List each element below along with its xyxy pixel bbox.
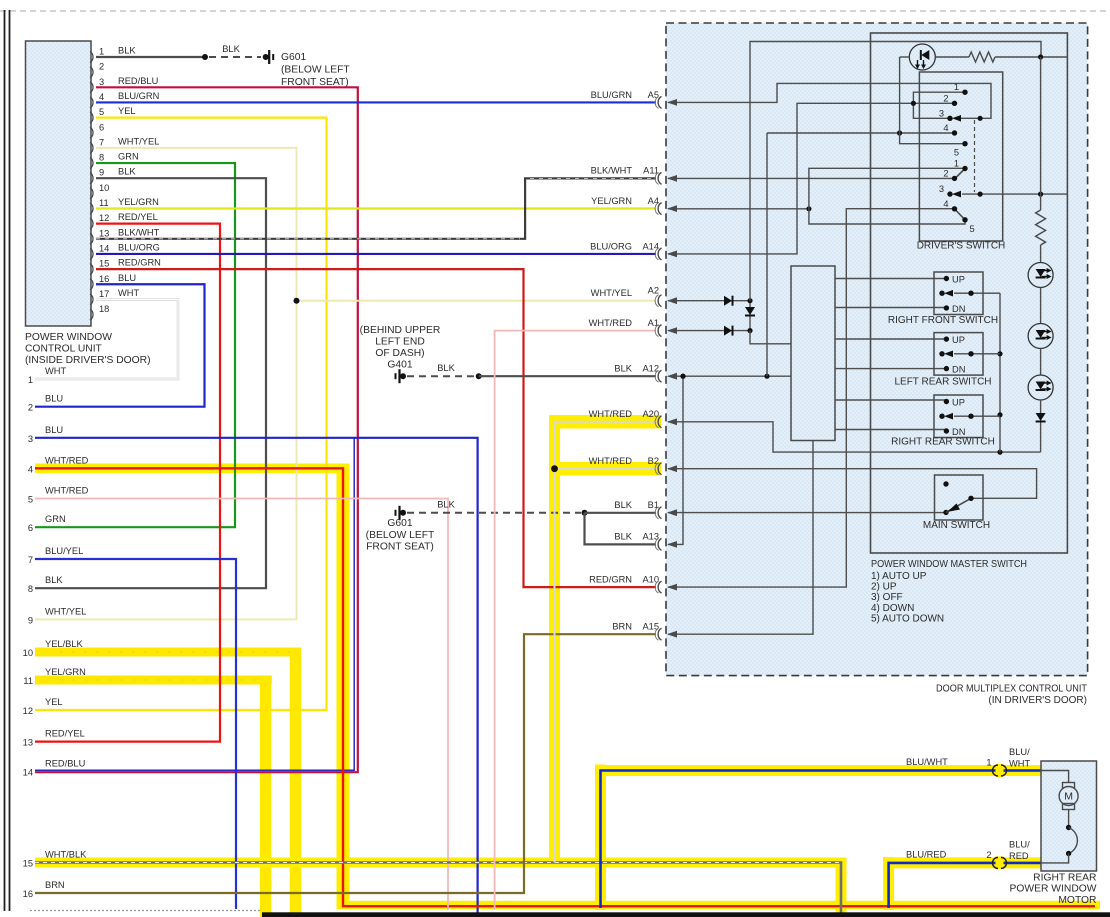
wire BLK to A12 solid xyxy=(479,375,656,377)
main switch blade top contact xyxy=(968,496,973,501)
svg-text:UP: UP xyxy=(952,335,965,345)
svg-text:WHT/YEL: WHT/YEL xyxy=(45,606,86,616)
motor lead to breaker xyxy=(1068,810,1070,828)
svg-text:BLK: BLK xyxy=(614,500,632,510)
svg-text:2: 2 xyxy=(943,93,948,103)
ground G601 middle xyxy=(395,510,397,516)
svg-text:2: 2 xyxy=(943,168,948,178)
svg-text:9: 9 xyxy=(99,168,104,178)
left rear switch wiper xyxy=(939,351,944,356)
svg-text:G601: G601 xyxy=(387,518,412,529)
svg-text:WHT/YEL: WHT/YEL xyxy=(118,136,159,146)
wire right rear DN lead xyxy=(835,429,946,431)
wire row3 BLU to bottom xyxy=(35,438,478,914)
svg-text:(IN DRIVER'S DOOR): (IN DRIVER'S DOOR) xyxy=(988,695,1087,706)
wire BLK branch to A13 xyxy=(585,513,657,545)
motor brush bottom xyxy=(1063,804,1075,810)
svg-text:POWER WINDOW MASTER SWITCH: POWER WINDOW MASTER SWITCH xyxy=(871,559,1027,570)
svg-text:CONTROL UNIT: CONTROL UNIT xyxy=(25,344,103,355)
junction A1 diode xyxy=(747,328,752,333)
svg-text:5) AUTO DOWN: 5) AUTO DOWN xyxy=(871,614,944,625)
wire B1 internal to main switch xyxy=(668,512,946,514)
page bottom dotted left xyxy=(30,910,262,912)
svg-text:YEL/GRN: YEL/GRN xyxy=(45,667,86,677)
main switch blade xyxy=(946,498,971,512)
wire right front DN lead xyxy=(835,307,946,309)
pin 11 half-circle xyxy=(90,203,93,214)
svg-text:BLU/ORG: BLU/ORG xyxy=(118,242,160,252)
right rear switch box xyxy=(934,395,983,438)
wire LED column vertical xyxy=(1040,57,1042,210)
resistor LED column xyxy=(1036,210,1046,245)
motor lead out xyxy=(1041,854,1069,863)
svg-text:RED/BLU: RED/BLU xyxy=(118,76,158,86)
wire LED1 leads xyxy=(900,56,910,58)
contact 4 lower pole xyxy=(952,206,957,211)
highlight band row10 YEL/BLK wire xyxy=(35,648,301,657)
wire row14 blue companion xyxy=(35,438,354,770)
entry A13 xyxy=(658,538,661,550)
highlight band bottom run xyxy=(337,901,1101,910)
wire pin13 BLK/WHT to A11 xyxy=(96,178,656,238)
pin 16 half-circle xyxy=(90,279,93,290)
highlight band BLU/WHT motor wire xyxy=(595,765,606,911)
svg-text:3: 3 xyxy=(99,77,104,87)
wire A1 WHT/RED pale xyxy=(495,331,656,910)
page left double border xyxy=(4,10,6,911)
wire contact4a lead xyxy=(767,132,955,134)
svg-text:DRIVER'S SWITCH: DRIVER'S SWITCH xyxy=(917,241,1006,252)
svg-text:7: 7 xyxy=(99,137,104,147)
svg-text:G601: G601 xyxy=(281,52,306,63)
svg-text:7: 7 xyxy=(28,555,33,565)
svg-text:BLU/RED: BLU/RED xyxy=(906,850,947,860)
wire A5 internal to driver's switch xyxy=(668,83,991,118)
wire pin8 GRN to row6 xyxy=(35,163,235,527)
svg-text:3: 3 xyxy=(28,434,33,444)
pin 10 half-circle xyxy=(90,188,93,199)
highlight band row15 WHT/BLK xyxy=(35,858,847,868)
blade contact4b to 5b xyxy=(955,209,966,220)
wire pin17 WHT to row1 xyxy=(35,299,178,379)
contact 2 lower pole xyxy=(952,176,957,181)
right rear switch UP contact xyxy=(944,399,949,404)
breaker contact bottom xyxy=(1066,851,1071,856)
motor internal wiring xyxy=(1041,771,1069,784)
junction left rear wiper xyxy=(997,351,1002,356)
svg-text:1) AUTO UP: 1) AUTO UP xyxy=(871,571,927,582)
wire A14 internal to contact 2 xyxy=(668,103,955,254)
svg-text:MAIN SWITCH: MAIN SWITCH xyxy=(923,520,990,531)
wire left rear DN lead xyxy=(835,368,946,370)
wire B2 WHT/RED core xyxy=(555,468,659,470)
svg-text:A2: A2 xyxy=(648,286,659,296)
left rear switch DN contact xyxy=(944,366,949,371)
svg-text:YEL/GRN: YEL/GRN xyxy=(591,196,632,206)
svg-text:WHT: WHT xyxy=(1009,759,1030,769)
svg-text:MOTOR: MOTOR xyxy=(1058,895,1096,906)
svg-text:LEFT REAR SWITCH: LEFT REAR SWITCH xyxy=(894,377,991,388)
svg-text:A5: A5 xyxy=(648,90,659,100)
svg-text:13: 13 xyxy=(23,738,33,748)
svg-text:17: 17 xyxy=(99,289,109,299)
svg-text:LEFT END: LEFT END xyxy=(375,337,425,348)
wire pin11 YEL/GRN to A4 xyxy=(96,207,656,209)
svg-text:BLU/WHT: BLU/WHT xyxy=(906,757,948,767)
svg-text:WHT/YEL: WHT/YEL xyxy=(591,288,632,298)
junction WHT/YEL xyxy=(294,298,300,304)
right front switch UP contact xyxy=(944,276,949,281)
svg-text:10: 10 xyxy=(99,183,109,193)
power window master switch box xyxy=(871,33,1068,553)
pin 6 half-circle xyxy=(90,127,93,138)
page bottom black bar xyxy=(262,912,1110,917)
highlight band A20/B2 vertical x554.5 xyxy=(549,415,560,866)
blade contact2b to 1b xyxy=(955,169,966,180)
svg-text:8: 8 xyxy=(28,584,33,594)
svg-text:13: 13 xyxy=(99,228,109,238)
wire contacts4/5 ground vertical x767 xyxy=(766,133,768,376)
svg-text:1: 1 xyxy=(28,375,33,385)
wire pin14 BLU/ORG to A14 xyxy=(96,253,656,255)
entry A10 xyxy=(658,581,661,593)
wire A4 internal xyxy=(668,208,809,210)
entry B2 xyxy=(658,463,661,475)
pin 5 half-circle xyxy=(90,112,93,123)
junction A12 to contacts 4/5 xyxy=(764,374,769,379)
pin 2 half-circle xyxy=(90,67,93,78)
contact 5 lower pole xyxy=(962,217,967,222)
wire A11 internal to contact 2 lower xyxy=(668,177,955,179)
left rear switch box xyxy=(934,333,983,376)
wire pin4 BLU/GRN to A5 xyxy=(96,101,656,103)
svg-text:BLU/GRN: BLU/GRN xyxy=(118,91,159,101)
svg-text:RIGHT FRONT SWITCH: RIGHT FRONT SWITCH xyxy=(888,315,998,326)
svg-text:9: 9 xyxy=(28,615,33,625)
svg-text:WHT/RED: WHT/RED xyxy=(45,455,89,465)
wire row11 YEL/GRN stripe xyxy=(60,679,260,681)
svg-text:6: 6 xyxy=(99,122,104,132)
svg-text:5: 5 xyxy=(954,148,959,158)
main switch moving contact xyxy=(943,510,948,515)
wire row5 WHT/RED pale xyxy=(35,499,448,911)
entry A1 xyxy=(658,325,661,337)
wire row15 WHT/BLK core xyxy=(35,863,841,914)
breaker arc xyxy=(1069,828,1078,854)
wire pin15 RED/GRN to A10 xyxy=(96,269,656,587)
junction A12 inside xyxy=(680,374,685,379)
motor M circle xyxy=(1059,787,1078,806)
contact 1 lower pole xyxy=(962,166,967,171)
svg-text:16: 16 xyxy=(23,889,33,899)
breaker contact top xyxy=(1066,825,1071,830)
svg-text:A1: A1 xyxy=(648,318,659,328)
wire WHT/YEL branch to A2 xyxy=(297,300,657,302)
wire pin1 BLK to G601 xyxy=(96,56,205,58)
svg-text:YEL: YEL xyxy=(45,697,63,707)
svg-text:11: 11 xyxy=(99,198,109,208)
highlight band row11 YEL/GRN wire xyxy=(35,676,272,685)
wire A20 internal xyxy=(668,422,1041,452)
highlight band row4 WHT/RED xyxy=(35,464,349,474)
junction BLK A12 xyxy=(476,373,482,379)
svg-text:G401: G401 xyxy=(387,360,412,371)
svg-text:BLK: BLK xyxy=(118,167,136,177)
entry A14 xyxy=(658,248,661,260)
wire BLK to B1 solid xyxy=(585,512,657,514)
diode LED column xyxy=(1036,413,1046,421)
wire A12 internal xyxy=(668,375,791,377)
wire BLK G601 to B1 dashed xyxy=(407,512,581,514)
right front switch DN contact xyxy=(944,305,949,310)
wire contact1 lower chain xyxy=(809,168,965,224)
wire A2 internal with diode xyxy=(668,300,726,302)
contact 1 upper pole xyxy=(962,90,967,95)
wire A1/A2 net to connector block xyxy=(750,331,791,344)
ground G401 xyxy=(395,373,397,379)
svg-text:DOOR MULTIPLEX CONTROL UNIT: DOOR MULTIPLEX CONTROL UNIT xyxy=(936,684,1087,695)
wire row16 BRN to A15 xyxy=(35,634,656,893)
entry A20 xyxy=(658,416,661,428)
svg-text:(BELOW LEFT: (BELOW LEFT xyxy=(366,530,435,541)
svg-text:GRN: GRN xyxy=(118,152,139,162)
svg-text:DN: DN xyxy=(952,427,965,437)
svg-text:DN: DN xyxy=(952,365,965,375)
svg-text:(BELOW LEFT: (BELOW LEFT xyxy=(281,65,350,76)
power window control unit connector box xyxy=(26,41,92,326)
highlight band BLU/RED motor wire xyxy=(883,857,894,910)
junction right rear wiper xyxy=(997,412,1002,417)
contact 5 upper pole xyxy=(962,141,967,146)
wire pin12 RED/YEL to row13 xyxy=(35,224,220,742)
svg-text:12: 12 xyxy=(99,213,109,223)
junction contact3a link xyxy=(978,116,983,121)
svg-text:4) DOWN: 4) DOWN xyxy=(871,603,914,614)
diode A1 xyxy=(724,326,732,336)
svg-text:1: 1 xyxy=(986,758,991,768)
svg-text:15: 15 xyxy=(99,259,109,269)
svg-text:3: 3 xyxy=(939,184,944,194)
pin 15 half-circle xyxy=(90,264,93,275)
diode between A2 and A1 xyxy=(749,301,751,307)
junction A4 on contact1-5 chain xyxy=(806,206,811,211)
svg-text:5: 5 xyxy=(28,495,33,505)
contact 4 upper pole xyxy=(952,130,957,135)
svg-text:1: 1 xyxy=(954,82,959,92)
svg-text:3: 3 xyxy=(939,108,944,118)
svg-text:M: M xyxy=(1064,791,1073,803)
pin 7 half-circle xyxy=(90,142,93,153)
door multiplex control unit box xyxy=(666,23,1088,676)
wire A15 internal to connector block xyxy=(668,441,813,635)
highlight band A20 horizontal xyxy=(549,415,661,429)
LED left rear xyxy=(1028,324,1053,349)
wire row7 BLU/YEL xyxy=(35,559,236,909)
main switch fixed contact xyxy=(943,481,948,486)
svg-text:RIGHT REAR SWITCH: RIGHT REAR SWITCH xyxy=(891,437,995,448)
svg-text:RED/BLU: RED/BLU xyxy=(45,759,85,769)
right front switch wiper xyxy=(939,291,944,296)
pin 1 half-circle xyxy=(90,52,93,63)
svg-text:2) UP: 2) UP xyxy=(871,582,897,593)
svg-text:BLU/: BLU/ xyxy=(1009,747,1030,757)
svg-text:RED/YEL: RED/YEL xyxy=(118,212,158,222)
right rear switch wiper xyxy=(939,414,944,419)
contact 3 upper pole xyxy=(947,116,952,121)
svg-text:B1: B1 xyxy=(648,500,659,510)
wire pin5 YEL to row12 xyxy=(35,118,327,710)
svg-text:POWER WINDOW: POWER WINDOW xyxy=(25,332,112,343)
wire BLK G401 to A12 dashed xyxy=(407,375,475,377)
junction contact2a lead xyxy=(911,101,916,106)
svg-text:WHT: WHT xyxy=(45,366,66,376)
svg-text:14: 14 xyxy=(23,768,33,778)
entry A5 xyxy=(658,96,661,108)
svg-text:RIGHT REAR: RIGHT REAR xyxy=(1033,873,1096,884)
contact 3 lower pole xyxy=(947,191,952,196)
svg-text:BLU: BLU xyxy=(45,394,63,404)
svg-text:BLK: BLK xyxy=(222,44,240,54)
svg-text:5: 5 xyxy=(970,224,975,234)
wire A10 internal to contact 4 lower xyxy=(668,209,955,587)
right rear power window motor box xyxy=(1041,761,1097,871)
svg-text:WHT: WHT xyxy=(118,288,139,298)
driver's switch box xyxy=(919,72,1002,241)
svg-text:WHT/RED: WHT/RED xyxy=(589,456,633,466)
wire BLU/RED core xyxy=(889,863,1041,908)
entry A12 xyxy=(658,370,661,382)
pin 18 half-circle xyxy=(90,309,93,320)
svg-text:BLU: BLU xyxy=(45,425,63,435)
svg-text:FRONT SEAT): FRONT SEAT) xyxy=(366,542,434,553)
junction resistor to LED column xyxy=(1038,54,1043,59)
svg-text:BLK/WHT: BLK/WHT xyxy=(118,227,160,237)
svg-text:RED/GRN: RED/GRN xyxy=(589,575,632,585)
svg-text:POWER WINDOW: POWER WINDOW xyxy=(1010,884,1097,895)
svg-text:2: 2 xyxy=(986,850,991,860)
right front switch box xyxy=(934,272,983,315)
diode A2 xyxy=(724,296,732,306)
svg-text:1: 1 xyxy=(99,47,104,57)
svg-text:BLK/WHT: BLK/WHT xyxy=(591,166,633,176)
ground G601 top xyxy=(263,54,269,60)
wire right rear UP lead xyxy=(835,399,946,401)
svg-text:4: 4 xyxy=(943,123,948,133)
pin 17 half-circle xyxy=(90,294,93,305)
wire contact1a lead xyxy=(913,92,965,118)
svg-text:YEL/BLK: YEL/BLK xyxy=(45,639,84,649)
junction A12 to A13 xyxy=(680,374,685,379)
svg-text:RED/YEL: RED/YEL xyxy=(45,729,85,739)
highlight band B2 horizontal xyxy=(549,462,661,476)
wire pin16 BLU to row2 xyxy=(35,284,205,406)
svg-text:RED/GRN: RED/GRN xyxy=(118,258,161,268)
svg-text:1: 1 xyxy=(954,159,959,169)
wire left rear UP lead xyxy=(835,338,946,340)
pin 12 half-circle xyxy=(90,218,93,229)
svg-text:BLK: BLK xyxy=(118,46,136,56)
svg-text:B2: B2 xyxy=(648,456,659,466)
pin 13 half-circle xyxy=(90,233,93,244)
svg-text:BRN: BRN xyxy=(612,622,632,632)
junction A2 diode xyxy=(747,298,752,303)
wire pin3 RED/BLU xyxy=(35,87,358,772)
svg-text:2: 2 xyxy=(28,403,33,413)
entry A15 xyxy=(658,628,661,640)
junction contact4a/5a xyxy=(897,130,902,135)
junction A20 wiper bus xyxy=(997,450,1002,455)
LED right rear xyxy=(1028,375,1053,400)
pin 3 half-circle xyxy=(90,82,93,93)
pin 4 half-circle xyxy=(90,97,93,108)
wiper arrow contact 3b xyxy=(952,191,961,198)
highlight band row10 vertical xyxy=(290,648,302,917)
svg-text:WHT/RED: WHT/RED xyxy=(589,409,633,419)
entry A2 xyxy=(658,295,661,307)
wire right front UP lead xyxy=(835,278,946,280)
pin 8 half-circle xyxy=(90,158,93,169)
svg-text:4: 4 xyxy=(99,92,104,102)
svg-text:BLU: BLU xyxy=(118,273,136,283)
wire A13 internal up to A12 xyxy=(668,376,683,544)
wire B2 internal to main switch xyxy=(668,469,1037,499)
svg-text:WHT/RED: WHT/RED xyxy=(45,486,89,496)
svg-text:5: 5 xyxy=(99,107,104,117)
LED right front xyxy=(1028,263,1053,288)
pin 9 half-circle xyxy=(90,173,93,184)
page top dashed border xyxy=(0,10,1110,12)
svg-text:BLU/: BLU/ xyxy=(1009,840,1030,850)
svg-text:11: 11 xyxy=(23,676,33,686)
svg-text:BRN: BRN xyxy=(45,880,65,890)
svg-text:YEL: YEL xyxy=(118,106,136,116)
wiper arrow contact 3a xyxy=(952,115,961,122)
contact 2 upper pole xyxy=(952,101,957,106)
svg-text:8: 8 xyxy=(99,153,104,163)
LED driver's switch illumination xyxy=(909,44,935,70)
svg-text:12: 12 xyxy=(23,706,33,716)
motor brush top xyxy=(1063,783,1075,789)
svg-text:(BEHIND UPPER: (BEHIND UPPER xyxy=(360,325,441,336)
svg-text:YEL/GRN: YEL/GRN xyxy=(118,197,159,207)
svg-text:OF DASH): OF DASH) xyxy=(375,348,424,359)
svg-text:WHT/RED: WHT/RED xyxy=(589,318,633,328)
highlight band row15 vertical x841 xyxy=(836,858,847,915)
svg-text:6: 6 xyxy=(28,523,33,533)
wire row4 WHT/RED red core xyxy=(35,468,1095,906)
wire A20 WHT/RED core xyxy=(555,422,659,863)
entry B1 xyxy=(658,507,661,519)
svg-text:WHT/BLK: WHT/BLK xyxy=(45,850,87,860)
right rear switch DN contact xyxy=(944,428,949,433)
junction BLK B1 xyxy=(582,510,588,516)
svg-text:4: 4 xyxy=(943,199,948,209)
mechanical link dashed xyxy=(974,120,976,192)
wire row10 YEL/BLK stripe xyxy=(60,651,290,653)
svg-text:BLK: BLK xyxy=(614,532,632,542)
highlight band vertical x343 xyxy=(337,464,350,909)
svg-text:DN: DN xyxy=(952,304,965,314)
junction contact3b link xyxy=(978,192,983,197)
junction B2 highlighted xyxy=(551,465,558,472)
multiplex internal connector block xyxy=(791,266,835,441)
svg-text:10: 10 xyxy=(23,648,33,658)
entry A11 xyxy=(658,172,661,184)
svg-text:18: 18 xyxy=(99,304,109,314)
main switch box xyxy=(935,475,984,520)
svg-text:BLK: BLK xyxy=(45,575,63,585)
wire A1 internal with diode xyxy=(668,330,726,332)
